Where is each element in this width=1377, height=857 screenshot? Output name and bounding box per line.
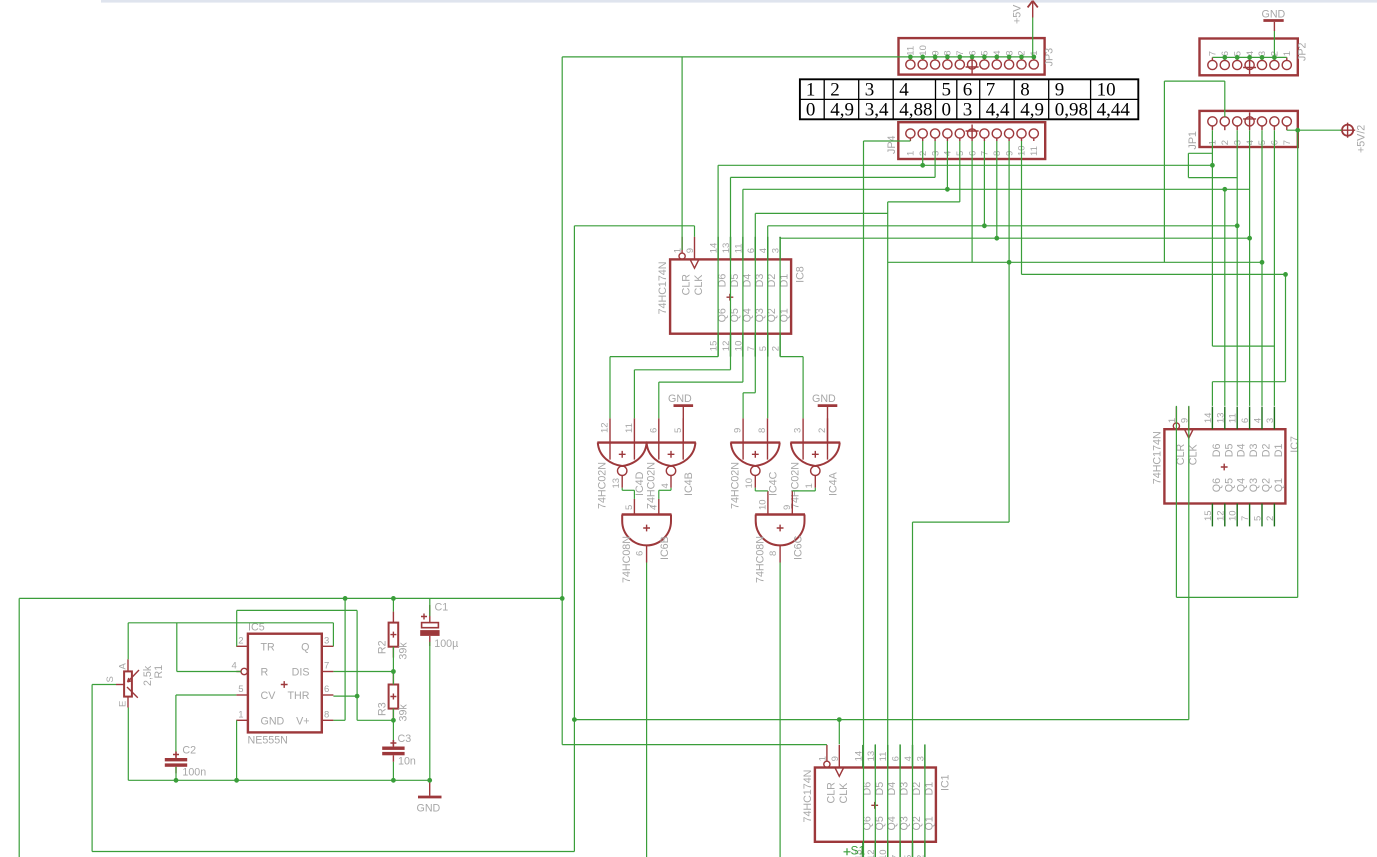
IC IC5 NE555N [232,622,334,747]
wire C2 bottom [175,767,177,781]
wire +5V to IC8 CLR [681,57,683,250]
wire row y=213 IC8 D3 [755,212,887,214]
svg-text:DIS: DIS [292,667,310,679]
svg-text:6: 6 [324,684,329,695]
svg-text:74HC174N: 74HC174N [802,770,814,823]
IC IC8 74HC174N [657,237,807,357]
svg-text:5: 5 [673,428,684,433]
svg-text:5: 5 [1253,516,1264,521]
wire left loop [18,598,20,857]
svg-text:Q3: Q3 [1248,478,1260,492]
gate IC4D 74HC02N [597,418,648,509]
svg-text:1: 1 [238,709,243,720]
svg-text:6: 6 [648,428,659,433]
GND symbol (gates, right) [812,393,837,443]
wire bus row y=165 (net to IC8 D6 / JP1 pin1) [718,164,1212,166]
svg-text:10: 10 [744,478,755,489]
svg-text:9: 9 [1004,151,1015,156]
wire Z jog near JP1 [1188,152,1212,154]
wire JP2 pin line (GND) [1212,56,1286,58]
svg-text:9: 9 [733,428,744,433]
wire JP4 pin1 to IC1 D6 [864,140,911,142]
wire DIS to R2/R3 [333,671,393,673]
wire IC6C output down [779,563,781,857]
svg-text:+5V/2: +5V/2 [1356,125,1368,153]
svg-text:JP2: JP2 [1297,43,1309,61]
svg-text:CLK: CLK [693,274,705,296]
svg-text:+5V: +5V [1012,4,1024,24]
wire V+ branch [333,719,345,721]
svg-text:5: 5 [238,684,243,695]
svg-text:3: 3 [1265,418,1276,423]
svg-text:6: 6 [963,80,973,101]
svg-text:3: 3 [963,100,973,121]
connector JP2 [1200,39,1309,76]
svg-text:8: 8 [992,151,1003,156]
svg-text:3: 3 [930,151,941,156]
svg-text:7: 7 [1282,140,1293,145]
svg-text:Q: Q [301,642,309,654]
svg-text:GND: GND [668,393,692,405]
svg-text:7: 7 [1208,51,1219,56]
GND symbol (bottom, under C1) [417,780,442,814]
svg-text:74HC02N: 74HC02N [790,462,802,509]
gate IC6B 74HC08N [621,499,672,583]
svg-text:10: 10 [918,45,929,56]
svg-text:74HC08N: 74HC08N [621,536,633,583]
resistor R3 39k [377,674,410,722]
svg-text:0: 0 [942,100,952,121]
svg-text:E: E [117,701,128,707]
wire TR-THR net [237,609,357,611]
svg-text:Q5: Q5 [1223,478,1235,492]
svg-text:4,4: 4,4 [986,100,1010,121]
svg-text:5: 5 [1257,140,1268,145]
wire to IC7 D5 [1224,189,1226,406]
wire NE555 +5V rail y=598 [19,597,562,599]
svg-text:13: 13 [1215,413,1226,424]
svg-text:IC7: IC7 [1289,436,1301,453]
svg-text:3: 3 [793,428,804,433]
+5V/2 supply symbol (right of JP1) [1340,123,1368,153]
wire JP1 pin7 to +5V/2 [1287,129,1342,131]
svg-text:THR: THR [288,690,310,702]
svg-text:R: R [261,667,269,679]
junction +5V / NE555 rail [560,596,565,601]
svg-text:R2: R2 [377,640,389,654]
wire row y=382 to IC7 D6 [1212,381,1285,383]
wire JP4 pin10 row y=274 [1021,141,1023,274]
svg-text:4: 4 [660,483,671,488]
svg-text:S: S [105,676,116,682]
capacitor C3 10n [382,733,416,768]
capacitor C2 100n [165,745,206,779]
svg-text:C1: C1 [435,602,449,614]
gate IC4B 74HC02N [645,418,696,509]
svg-text:10: 10 [1097,80,1116,101]
svg-text:6: 6 [1240,418,1251,423]
svg-text:Q6: Q6 [1211,478,1223,492]
svg-text:8: 8 [1020,80,1029,101]
wire C3 bottom [392,762,394,781]
svg-text:1: 1 [817,756,828,761]
svg-text:4: 4 [899,80,909,101]
svg-text:10n: 10n [398,756,416,768]
svg-text:R3: R3 [377,702,389,716]
svg-text:6: 6 [635,551,646,556]
wire IC4B out to IC6B.4 [670,488,672,491]
svg-text:74HC02N: 74HC02N [597,462,609,509]
svg-text:2: 2 [1220,140,1231,145]
svg-text:TR: TR [261,642,276,654]
svg-text:12: 12 [1215,510,1226,521]
wire JP4 pin5 row y=202 to IC1 D4 [959,141,961,202]
svg-text:2: 2 [1265,516,1276,521]
resistor R1 potentiometer 2,5k [105,659,165,707]
svg-text:JP4: JP4 [886,136,898,154]
wire JP4 pin9 to IC1 D2 [1008,141,1010,522]
wire JP1 pin1 down [1211,130,1213,346]
wire R1.E down [127,708,129,781]
svg-text:8: 8 [757,428,768,433]
svg-text:11: 11 [1228,413,1239,423]
wire +5V/2 to IC7 CLR [1297,130,1299,597]
svg-text:D2: D2 [1261,443,1273,457]
svg-text:D1: D1 [1273,443,1285,457]
svg-text:JP1: JP1 [1187,131,1199,149]
svg-text:A: A [117,663,128,670]
svg-text:4,9: 4,9 [830,100,854,121]
svg-text:GND: GND [261,716,285,728]
wire JP4 pin4 row y=189 [946,141,948,189]
svg-text:9: 9 [782,505,793,510]
svg-text:5: 5 [624,505,635,510]
wire JP4 pin2 [922,141,924,165]
svg-text:4,88: 4,88 [899,100,932,121]
svg-text:4: 4 [648,505,659,510]
svg-text:7: 7 [1240,516,1251,521]
svg-text:7: 7 [324,661,329,672]
svg-text:1: 1 [906,151,917,156]
IC IC7 74HC174N [1151,407,1301,527]
svg-text:11: 11 [1029,146,1040,156]
svg-text:D5: D5 [1223,443,1235,457]
measurement table [800,79,1138,120]
svg-text:IC4D: IC4D [634,471,646,496]
svg-text:1: 1 [804,483,815,488]
wire IC8 Q6 to IC4D.12 [610,356,718,358]
svg-text:74HC02N: 74HC02N [645,462,657,509]
part S1 (clipped at bottom) [844,844,866,857]
svg-text:Q2: Q2 [1261,478,1273,492]
svg-text:D3: D3 [1248,443,1260,457]
wire JP1 pin3 to IC7 D4 [1236,130,1238,406]
svg-text:7: 7 [986,80,996,101]
resistor R2 39k [377,612,410,660]
svg-text:39k: 39k [397,642,409,660]
wire C1 bottom [429,642,431,780]
wire row y=262 [888,261,1262,263]
wire GND pin down [236,720,238,780]
svg-text:4: 4 [1245,140,1256,145]
wire CLK line y=720 [574,719,1188,721]
+5V supply symbol (above JP3) [1012,1,1038,24]
svg-text:GND: GND [417,803,441,815]
svg-text:1: 1 [806,80,816,101]
svg-text:2: 2 [918,151,929,156]
svg-text:NE555N: NE555N [248,735,288,747]
svg-text:Q1: Q1 [1273,478,1285,492]
connector JP4 [886,122,1045,159]
svg-text:0,98: 0,98 [1055,100,1088,121]
svg-text:9: 9 [830,756,841,761]
svg-text:39k: 39k [397,704,409,722]
svg-text:8: 8 [768,551,779,556]
wire bottom rail y=780 [128,779,429,781]
svg-text:S1: S1 [851,844,866,857]
svg-text:IC6C: IC6C [793,535,805,560]
svg-text:CV: CV [261,690,277,702]
wire R pin branch [176,623,178,672]
svg-text:IC4C: IC4C [767,471,779,496]
wire JP1 pin5 to IC7 D2 [1261,130,1263,406]
wire row y=226 IC8 D2 / JP1 pin3 [768,225,1237,227]
wire JP1 pin4 to IC7 D3 [1249,130,1251,406]
svg-text:74HC174N: 74HC174N [1151,431,1163,484]
svg-text:CLR: CLR [681,274,693,296]
svg-text:4: 4 [1253,418,1264,423]
svg-text:2: 2 [238,635,243,646]
wire R2 top [392,598,394,611]
wire C1 top [429,598,431,616]
svg-text:D4: D4 [1236,443,1248,457]
svg-text:100n: 100n [182,767,206,779]
capacitor C1 100µ polarized [420,602,458,650]
svg-text:3: 3 [865,80,875,101]
top window strip [101,0,1377,3]
connector JP3 [899,38,1056,75]
svg-text:6: 6 [967,151,978,156]
svg-text:IC8: IC8 [795,266,807,283]
svg-text:D6: D6 [1211,443,1223,457]
wire IC4A out to IC6C.9 [814,488,816,491]
svg-text:10: 10 [1017,145,1028,156]
svg-text:GND: GND [1262,9,1286,21]
svg-text:10: 10 [758,499,769,510]
svg-text:3: 3 [1232,140,1243,145]
GND symbol (gates, left) [668,393,693,443]
svg-text:74HC02N: 74HC02N [730,462,742,509]
wire CV to C2 [176,694,236,696]
svg-text:GND: GND [812,393,836,405]
svg-text:IC6B: IC6B [659,536,671,560]
svg-text:Q4: Q4 [1236,478,1248,492]
svg-text:2: 2 [830,80,840,101]
svg-text:IC4B: IC4B [683,472,695,496]
svg-text:12: 12 [600,422,611,433]
svg-text:13: 13 [611,478,622,489]
wire IC8 Q5 to IC4D.11 [634,369,730,371]
svg-text:CLK: CLK [838,782,850,804]
svg-text:2: 2 [817,428,828,433]
svg-text:74HC174N: 74HC174N [657,262,669,315]
wire JP4 pin3 row y=177 to IC8 D5 [934,141,936,177]
wire R3 bottom to C3 [392,709,394,740]
svg-text:V+: V+ [296,716,309,728]
svg-text:10: 10 [1228,510,1239,521]
svg-text:11: 11 [906,46,917,56]
svg-text:0: 0 [806,100,816,121]
wire IC4D out to IC6B.5 [621,488,623,491]
svg-text:IC4A: IC4A [827,471,839,496]
connector JP1 [1187,111,1298,150]
svg-text:CLR: CLR [825,782,837,804]
gate IC4A 74HC02N [790,418,841,509]
svg-text:9: 9 [685,248,696,253]
svg-text:IC1: IC1 [939,774,951,791]
svg-text:6: 6 [1270,140,1281,145]
svg-text:1: 1 [1208,140,1219,145]
svg-text:74HC08N: 74HC08N [755,536,767,583]
svg-text:15: 15 [1203,510,1214,521]
gate IC4C 74HC02N [730,418,781,509]
wire JP4 pin6 [971,141,973,262]
svg-text:14: 14 [1203,413,1214,424]
wire R1.S loop [92,684,116,686]
svg-text:5: 5 [955,151,966,156]
svg-text:5: 5 [942,80,952,101]
wire R2 bottom / R3 top [392,647,394,685]
svg-text:4: 4 [232,661,237,672]
wire IC8 Q3 to IC4C.9 [743,392,755,394]
wire row y=238 IC8 D1 [780,237,1250,239]
wire IC4C out to IC6C.10 [754,488,756,491]
svg-text:3: 3 [324,635,329,646]
svg-text:4: 4 [943,151,954,156]
svg-text:1: 1 [1282,51,1293,56]
gate IC6C 74HC08N [755,491,806,583]
svg-text:9: 9 [1055,80,1065,101]
svg-text:C2: C2 [182,745,196,757]
svg-text:C3: C3 [398,733,412,745]
wire IC1 D5/D3/D1 verticals [874,744,876,857]
svg-text:3,4: 3,4 [865,100,889,121]
svg-text:100µ: 100µ [434,638,458,650]
wire JP1 pin2 over the top [1224,81,1226,117]
svg-text:4,9: 4,9 [1020,100,1044,121]
wire IC6B output down [646,563,648,857]
wire R1.A / Q rail [127,623,129,660]
svg-text:JP3: JP3 [1044,48,1056,66]
svg-text:8: 8 [324,709,329,720]
GND supply symbol (above JP2) [1262,9,1286,32]
wire jog to IC7 D1 [1212,345,1274,347]
svg-text:11: 11 [624,423,635,433]
svg-text:4,44: 4,44 [1097,100,1131,121]
wire IC8 Q4 to IC4B.6 [659,381,743,383]
wire CLK row y=226 to IC8 CLK [574,225,694,227]
svg-text:R1: R1 [153,665,165,679]
wire +5V net [1032,18,1034,57]
IC IC1 74HC174N [802,745,952,857]
svg-text:7: 7 [980,151,991,156]
wire IC8 Q1 to IC4A.3 [780,356,803,358]
svg-text:14: 14 [853,751,864,762]
